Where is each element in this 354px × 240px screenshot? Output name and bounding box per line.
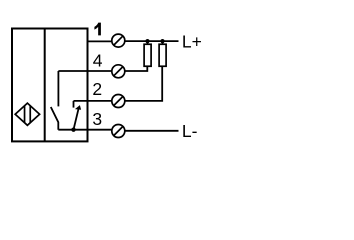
sensor body outline <box>12 29 88 142</box>
wire terminal 4 to load R1 <box>125 66 148 71</box>
terminal 2 <box>112 95 125 108</box>
wire terminal 2 to load R2 <box>125 66 163 101</box>
switch right lever with arrowhead <box>74 105 82 130</box>
wire L+ rail from terminal 1 <box>125 40 179 42</box>
svg-text:3: 3 <box>92 109 102 129</box>
terminal 3 <box>112 125 125 138</box>
svg-text:4: 4 <box>93 50 103 70</box>
load resistor R2 <box>159 41 166 66</box>
load resistor R1 <box>144 41 151 66</box>
terminal 1 <box>112 34 125 47</box>
switch fixed contact post from pin 4 <box>57 71 59 106</box>
wire pin 2 to terminal <box>74 100 112 102</box>
pin 2 stub inside body <box>73 101 75 108</box>
switch left lever <box>51 107 59 130</box>
svg-text:L-: L- <box>182 121 198 141</box>
pin number 1 <box>94 23 101 36</box>
wire pin 4 internal and external to terminal <box>58 70 112 72</box>
junction node on L+ rail at load R2 <box>160 39 164 43</box>
svg-text:L+: L+ <box>182 32 202 52</box>
wire pin 1 to terminal <box>87 40 112 42</box>
wire pin 3 internal bottom <box>58 129 112 131</box>
svg-text:2: 2 <box>92 79 102 99</box>
junction node on L+ rail at load R1 <box>145 39 149 43</box>
wire L- from terminal 3 <box>125 130 179 132</box>
proximity sensor diamond symbol <box>15 103 39 125</box>
junction dot on pin 3 wire <box>71 128 75 132</box>
terminal 4 <box>112 65 125 78</box>
sensor body divider <box>44 29 46 142</box>
